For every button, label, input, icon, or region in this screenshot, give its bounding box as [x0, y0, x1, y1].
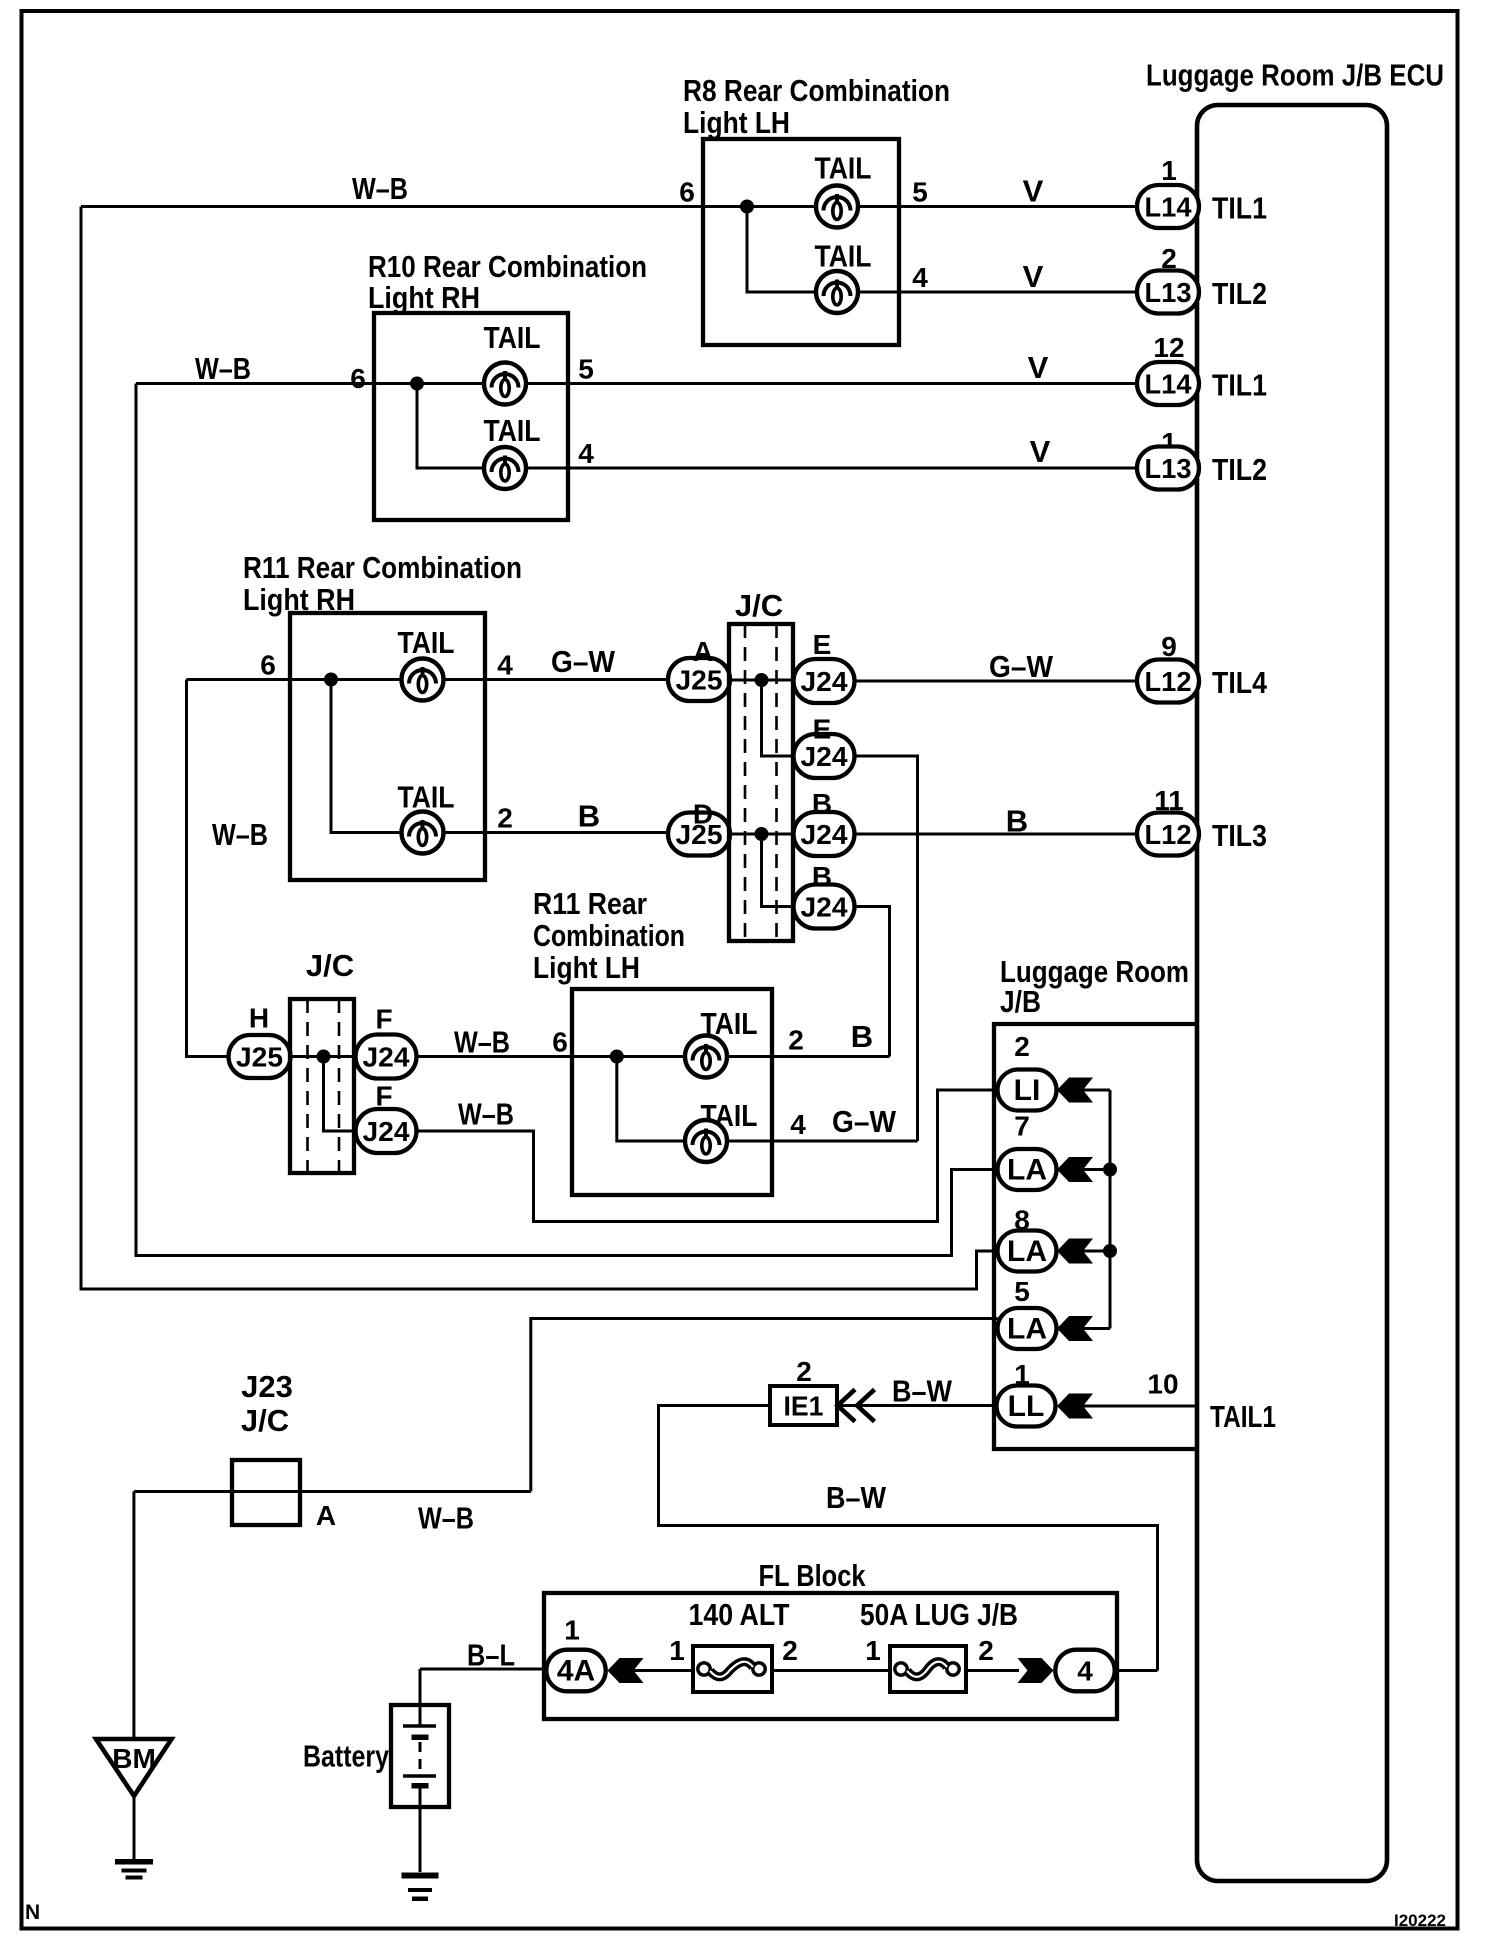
svg-text:I20222: I20222	[1394, 1911, 1446, 1930]
wire IE1 to FL block B-W	[659, 1406, 1158, 1671]
svg-text:TAIL: TAIL	[398, 625, 455, 660]
svg-text:BM: BM	[112, 1743, 156, 1774]
svg-text:B–W: B–W	[892, 1374, 953, 1409]
svg-text:TAIL: TAIL	[484, 413, 541, 448]
wire B J24 to L12	[855, 833, 1138, 836]
svg-text:5: 5	[578, 354, 594, 385]
wire W-B J24F to R11 LH pin6	[417, 1055, 617, 1058]
junction node J/C right upper	[755, 673, 769, 687]
connector J25 D	[668, 813, 730, 856]
wire J24B branch to R11 LH B	[855, 907, 890, 1057]
wire J25A through J/C to J24E	[730, 679, 794, 682]
svg-text:Light RH: Light RH	[368, 280, 480, 315]
svg-text:V: V	[1030, 434, 1051, 469]
svg-text:J25: J25	[676, 665, 723, 696]
svg-text:Light LH: Light LH	[683, 105, 790, 140]
svg-text:5: 5	[1014, 1276, 1030, 1307]
wire 4A arrow to fuse1	[634, 1669, 694, 1672]
wire J23 A to LA5 W-B	[134, 1319, 998, 1492]
svg-text:J/B: J/B	[1000, 984, 1041, 1019]
J/C right dashed line 1	[744, 624, 747, 941]
svg-text:J24: J24	[363, 1116, 410, 1147]
ground symbol BM triangle	[96, 1739, 172, 1796]
R11 rear combination light LH box	[572, 989, 772, 1195]
connector L13 row2	[1137, 271, 1199, 314]
bulb TAIL R11 RH lower	[402, 812, 444, 854]
svg-text:A: A	[316, 1500, 336, 1531]
svg-text:TAIL: TAIL	[815, 151, 872, 186]
svg-text:LA: LA	[1007, 1235, 1047, 1268]
svg-text:R10 Rear Combination: R10 Rear Combination	[368, 249, 647, 284]
svg-text:10: 10	[1147, 1369, 1178, 1400]
wire W-B R10 branch to LA7	[136, 384, 998, 1256]
connector LA pin5	[998, 1308, 1057, 1349]
svg-text:Battery: Battery	[303, 1739, 390, 1774]
svg-text:Combination: Combination	[533, 918, 685, 953]
svg-text:J/C: J/C	[306, 948, 354, 983]
svg-text:L13: L13	[1145, 453, 1192, 484]
wire R11 LH bulb2 pin4 G-W	[727, 1140, 918, 1143]
wire R11 LH bulb1 wires	[617, 1055, 890, 1058]
FL block box	[544, 1593, 1117, 1719]
bulb TAIL R10 upper	[484, 363, 526, 405]
bulb TAIL R11 LH lower	[685, 1120, 727, 1162]
svg-text:50A LUG J/B: 50A LUG J/B	[860, 1597, 1018, 1632]
wire J25D through J/C to J24B	[730, 833, 794, 836]
svg-text:A: A	[693, 636, 713, 667]
svg-text:B: B	[1006, 804, 1028, 839]
connector L12 row6	[1137, 813, 1199, 856]
wire J/C internal branch E	[762, 680, 794, 756]
svg-text:TAIL: TAIL	[398, 780, 455, 815]
svg-text:L14: L14	[1145, 369, 1192, 400]
ground bars BM	[115, 1859, 153, 1880]
svg-text:B–L: B–L	[467, 1638, 515, 1673]
svg-text:J/C: J/C	[241, 1403, 289, 1438]
svg-text:2: 2	[788, 1025, 804, 1056]
double chevron into IE1	[838, 1390, 875, 1422]
svg-text:TIL1: TIL1	[1212, 191, 1267, 226]
svg-text:W–B: W–B	[195, 351, 251, 386]
wire J/C internal branch B	[762, 834, 794, 907]
svg-text:2: 2	[497, 803, 513, 834]
svg-text:J/C: J/C	[735, 588, 783, 623]
connector IE1 box	[770, 1386, 837, 1425]
arrow into LA pin5	[1057, 1316, 1093, 1341]
svg-text:G–W: G–W	[989, 649, 1054, 684]
R10 rear combination light RH box	[374, 313, 568, 520]
svg-text:D: D	[693, 799, 713, 830]
svg-text:L14: L14	[1145, 192, 1192, 223]
junction node J/C right lower	[755, 827, 769, 841]
R11 rear combination light RH box	[290, 613, 485, 880]
fusible link 50A LUG J/B	[890, 1646, 966, 1692]
arrow into LL	[1057, 1394, 1093, 1419]
battery box	[391, 1705, 449, 1807]
svg-text:LI: LI	[1014, 1074, 1041, 1107]
svg-text:E: E	[813, 629, 832, 660]
connector L14 row1	[1137, 185, 1199, 228]
svg-text:J23: J23	[241, 1369, 293, 1404]
svg-text:W–B: W–B	[352, 171, 408, 206]
connector J24 F upper	[356, 1035, 417, 1079]
svg-text:W–B: W–B	[212, 817, 268, 852]
wire LA5 arrow to bus	[1083, 1327, 1110, 1330]
junction node R8	[740, 200, 754, 214]
connector J24 E row5	[794, 659, 855, 703]
connector J24 B row6	[794, 812, 855, 856]
wire R8 bulb1 pin5 to L14	[858, 205, 1137, 208]
svg-text:J24: J24	[801, 819, 848, 850]
svg-text:R11 Rear Combination: R11 Rear Combination	[243, 550, 522, 585]
wire battery to ground	[419, 1787, 422, 1872]
svg-text:6: 6	[552, 1027, 568, 1058]
wire BM apex to ground	[133, 1796, 136, 1859]
wire B-L battery to 4A	[420, 1669, 547, 1726]
connector LL pin1	[997, 1386, 1056, 1427]
svg-text:2: 2	[1014, 1031, 1030, 1062]
svg-text:F: F	[375, 1004, 392, 1035]
svg-text:W–B: W–B	[458, 1097, 514, 1132]
connector L14 row3	[1137, 362, 1199, 405]
svg-text:R8 Rear Combination: R8 Rear Combination	[683, 73, 950, 108]
svg-text:TIL4: TIL4	[1212, 665, 1268, 700]
svg-text:R11 Rear: R11 Rear	[533, 886, 647, 921]
svg-text:V: V	[1028, 350, 1049, 385]
svg-text:1: 1	[669, 1635, 685, 1666]
wire G-W J24E to L12	[855, 680, 1138, 683]
svg-text:140 ALT: 140 ALT	[689, 1597, 790, 1632]
wire R11 RH junction to bulb2	[331, 680, 402, 833]
wire LI arrow to bus	[1083, 1089, 1110, 1092]
junction connector J/C right box	[729, 624, 793, 941]
wire J23 to BM triangle	[132, 1492, 135, 1740]
svg-text:6: 6	[679, 177, 695, 208]
svg-text:2: 2	[782, 1635, 798, 1666]
svg-text:V: V	[1023, 174, 1044, 209]
svg-text:V: V	[1023, 259, 1044, 294]
svg-text:TAIL: TAIL	[815, 239, 872, 274]
svg-text:Luggage Room J/B ECU: Luggage Room J/B ECU	[1146, 58, 1444, 93]
connector 4 oval	[1055, 1650, 1114, 1692]
svg-text:7: 7	[1014, 1111, 1030, 1142]
svg-text:4: 4	[578, 438, 594, 469]
svg-text:L13: L13	[1145, 277, 1192, 308]
svg-text:12: 12	[1153, 332, 1184, 363]
svg-text:1: 1	[564, 1615, 580, 1646]
connector L12 row5	[1137, 660, 1199, 703]
svg-text:Light LH: Light LH	[533, 950, 640, 985]
svg-text:TIL3: TIL3	[1212, 818, 1267, 853]
arrow into LA pin8	[1057, 1239, 1093, 1264]
ground bars battery	[402, 1873, 439, 1902]
svg-text:B: B	[578, 799, 600, 834]
svg-text:G–W: G–W	[551, 644, 616, 679]
svg-text:4A: 4A	[557, 1655, 595, 1688]
J/C left dashed line 2	[338, 999, 341, 1173]
junction connector J/C left box	[290, 999, 354, 1173]
svg-text:2: 2	[796, 1356, 812, 1387]
bulb TAIL R8 lower	[816, 271, 858, 313]
svg-text:W–B: W–B	[454, 1025, 510, 1060]
svg-text:2: 2	[978, 1635, 994, 1666]
svg-text:H: H	[249, 1003, 269, 1034]
connector L13 row4	[1137, 447, 1199, 490]
arrow into LA pin7	[1057, 1157, 1093, 1182]
wire R10 bulb1 pin5 to L14	[526, 382, 1137, 385]
connector J24 F lower	[356, 1109, 417, 1153]
svg-text:B–W: B–W	[826, 1480, 887, 1515]
svg-text:B: B	[812, 861, 832, 892]
svg-text:1: 1	[865, 1635, 881, 1666]
svg-text:J24: J24	[363, 1042, 410, 1073]
wire R11 RH bulb1 pin4 G-W to J25	[444, 678, 669, 681]
wire TAIL1 LL to ECU	[1083, 1405, 1197, 1408]
wire R10 junction to bulb2	[417, 384, 484, 469]
wire J25H through J/C to J24F	[290, 1055, 356, 1058]
svg-text:J24: J24	[801, 666, 848, 697]
svg-text:FL Block: FL Block	[759, 1558, 867, 1593]
arrow into LI	[1057, 1078, 1093, 1103]
svg-text:LA: LA	[1007, 1154, 1047, 1187]
wire W-B from R8 pin6 left	[81, 205, 816, 208]
svg-text:J24: J24	[801, 892, 848, 923]
wire LL to IE1 B-W	[837, 1404, 996, 1407]
svg-text:4: 4	[912, 262, 928, 293]
battery cell symbol	[403, 1726, 436, 1789]
wire fuse1 to fuse2	[772, 1669, 890, 1672]
J/C left dashed line 1	[306, 999, 309, 1173]
svg-text:TIL2: TIL2	[1212, 276, 1267, 311]
fusible link 140 ALT	[693, 1646, 772, 1692]
J/B internal bus vertical	[1109, 1090, 1112, 1329]
svg-text:L12: L12	[1145, 819, 1192, 850]
junction node J/C left	[317, 1050, 331, 1064]
svg-text:1: 1	[1161, 155, 1177, 186]
bulb TAIL R10 lower	[484, 447, 526, 489]
svg-text:LA: LA	[1007, 1313, 1047, 1346]
junction connector J23 box	[232, 1460, 300, 1525]
junction node R11 RH	[324, 673, 338, 687]
wire LA7 arrow to bus	[1083, 1168, 1110, 1171]
connector J24 B branch2	[794, 885, 855, 929]
svg-text:B: B	[851, 1019, 873, 1054]
svg-text:TIL1: TIL1	[1212, 368, 1267, 403]
junction node bus LA7	[1103, 1163, 1117, 1177]
connector LI pin2	[998, 1070, 1057, 1111]
svg-text:TAIL1: TAIL1	[1210, 1399, 1276, 1434]
wire LA8 arrow to bus	[1083, 1250, 1110, 1253]
wire W-B J24F lower to LI	[417, 1090, 998, 1222]
connector J25 A	[668, 658, 730, 701]
wire W-B vertical to R11 RH pin6	[187, 680, 230, 1057]
wire R11 RH bulb2 pin2 B to J25	[444, 831, 669, 834]
wire R8 junction to bulb2	[747, 207, 816, 293]
svg-text:LL: LL	[1008, 1390, 1045, 1423]
wire J/C left internal branch	[324, 1057, 356, 1132]
bulb TAIL R11 RH upper	[402, 659, 444, 701]
arrow into 4 oval	[1018, 1658, 1054, 1683]
bulb TAIL R11 LH upper	[685, 1036, 727, 1078]
svg-text:IE1: IE1	[784, 1391, 824, 1422]
wire R11 LH junction to bulb2	[617, 1057, 685, 1142]
R8 rear combination light LH box	[703, 139, 899, 345]
connector J25 H	[229, 1035, 291, 1078]
svg-text:6: 6	[350, 363, 366, 394]
wire J24E branch to R11 LH G-W	[855, 756, 918, 1141]
connector LA pin7	[998, 1149, 1057, 1190]
connector 4A	[546, 1650, 605, 1692]
wire W-B from R10 pin6 left	[136, 382, 484, 385]
arrow into 4A	[608, 1658, 644, 1683]
junction node R11 LH	[610, 1050, 624, 1064]
svg-text:L12: L12	[1145, 666, 1192, 697]
wire W-B R8 branch to LA8	[81, 207, 998, 1290]
svg-text:5: 5	[912, 177, 928, 208]
svg-text:4: 4	[790, 1109, 806, 1140]
wire R8 bulb2 pin4 to L13	[858, 291, 1137, 294]
svg-text:J25: J25	[236, 1042, 283, 1073]
luggage room J/B box	[994, 1024, 1197, 1449]
wire R11 RH pin6 entry	[187, 678, 402, 681]
svg-text:6: 6	[260, 650, 276, 681]
svg-text:W–B: W–B	[418, 1501, 474, 1536]
wire R10 bulb2 pin4 to L13	[526, 467, 1137, 470]
svg-text:G–W: G–W	[832, 1104, 897, 1139]
svg-text:4: 4	[497, 650, 513, 681]
svg-text:4: 4	[1077, 1656, 1093, 1687]
svg-text:N: N	[25, 1901, 40, 1924]
J/C right dashed line 2	[775, 624, 778, 941]
wire fuse2 to arrow	[966, 1669, 1019, 1672]
bulb TAIL R8 upper	[816, 186, 858, 228]
connector LA pin8	[998, 1231, 1057, 1272]
svg-text:B: B	[812, 788, 832, 819]
junction node R10	[410, 377, 424, 391]
svg-text:TAIL: TAIL	[484, 320, 541, 355]
ECU Luggage Room J/B ECU box	[1197, 105, 1387, 1881]
junction node bus LA8	[1103, 1244, 1117, 1258]
svg-text:J24: J24	[801, 741, 848, 772]
svg-text:TIL2: TIL2	[1212, 452, 1267, 487]
svg-text:E: E	[813, 714, 832, 745]
connector J24 E branch	[794, 734, 855, 778]
